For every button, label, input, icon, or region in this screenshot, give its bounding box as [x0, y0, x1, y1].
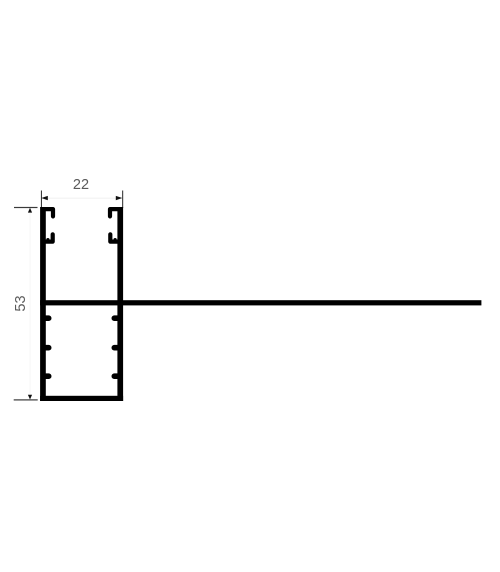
arrow bottom of 53 dim	[28, 395, 32, 400]
inner bump right 1	[114, 315, 117, 321]
lower screw finger left	[45, 234, 53, 241]
profile right wall	[117, 207, 123, 401]
profile left wall	[40, 207, 46, 401]
lower screw finger right tick	[113, 240, 116, 241]
extension line left of 22	[41, 191, 42, 209]
inner bump right 2	[114, 345, 117, 351]
svg-text:53: 53	[13, 295, 29, 311]
arrow top of 53 dim	[28, 208, 32, 213]
dimension line 22 (light)	[41, 198, 122, 199]
lower screw finger right	[110, 234, 118, 241]
arrow right of 22 dim	[116, 196, 123, 200]
lower screw finger left tick	[46, 240, 49, 241]
svg-text:22: 22	[73, 177, 89, 193]
profile mid rail and long flange	[40, 300, 481, 305]
inner bump left 1	[45, 315, 48, 321]
inner bump left 3	[45, 373, 48, 379]
extension line right of 22	[122, 191, 123, 209]
top screw finger right	[110, 209, 118, 216]
inner bump right 3	[114, 373, 117, 379]
top screw finger left	[45, 209, 53, 216]
dimension line 53 (light)	[30, 208, 31, 399]
profile bottom rail	[40, 396, 123, 401]
extension line bottom of 53	[14, 399, 38, 400]
extension line top of 53	[14, 207, 38, 208]
inner bump left 2	[45, 345, 48, 351]
arrow left of 22 dim	[41, 196, 48, 200]
